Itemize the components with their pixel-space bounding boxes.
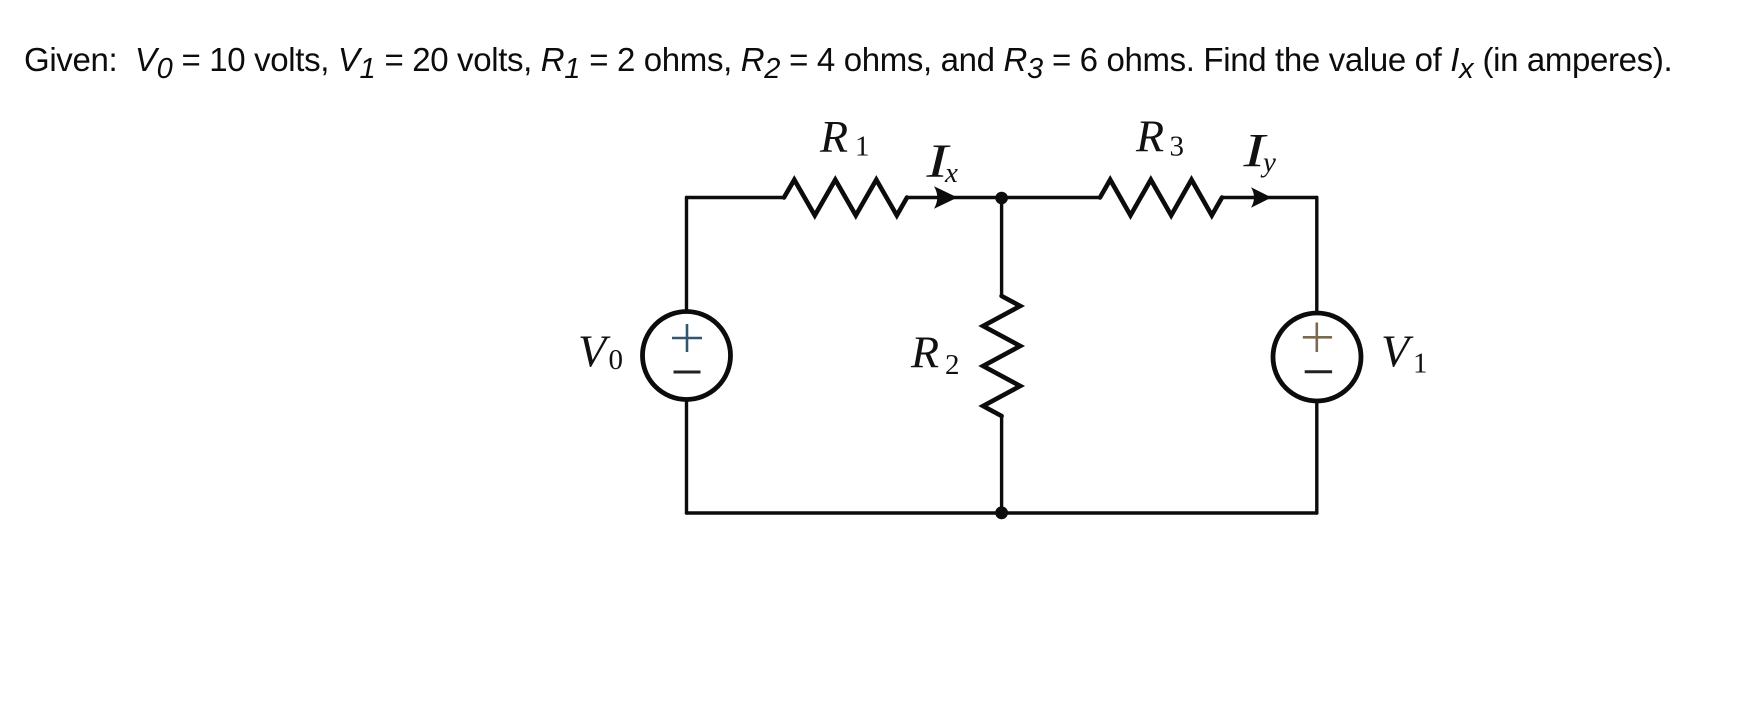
svg-text:x: x [944,157,958,189]
svg-text:V: V [1381,325,1414,376]
svg-text:1: 1 [855,131,870,163]
svg-text:R: R [910,326,939,377]
svg-text:y: y [1260,147,1276,179]
svg-text:1: 1 [1413,348,1428,380]
svg-text:2: 2 [945,349,960,381]
svg-text:V: V [578,325,611,376]
svg-text:R: R [819,111,848,162]
svg-text:R: R [1135,111,1164,162]
svg-text:3: 3 [1170,131,1185,163]
svg-text:0: 0 [609,344,624,376]
